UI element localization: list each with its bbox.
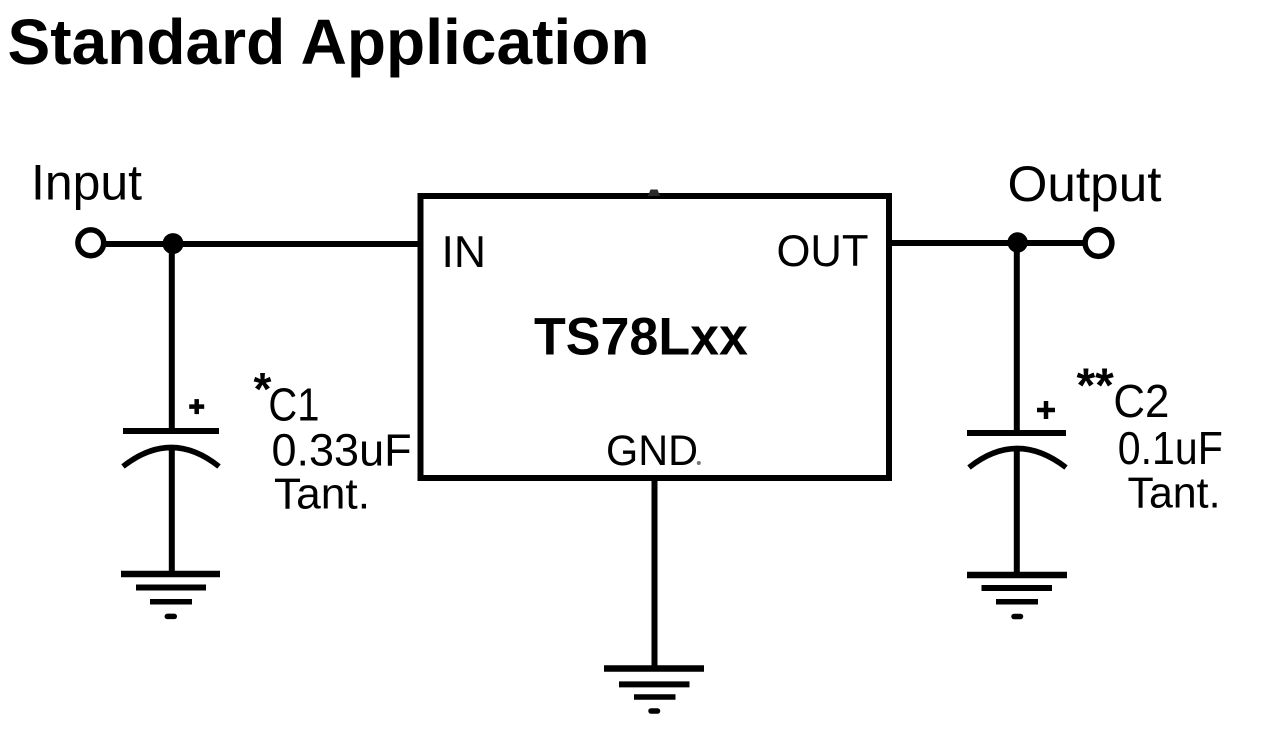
wire OUT pin to output terminal (888, 240, 1086, 246)
wire C1 to ground (169, 447, 175, 577)
node B (output junction) (1007, 232, 1027, 252)
wire node A down to C1 (169, 244, 175, 431)
svg-text:C1: C1 (268, 379, 319, 431)
tick mark on top edge of U1 (648, 190, 660, 197)
ground (input side) (121, 574, 220, 616)
ground (GND pin) (604, 669, 704, 712)
node A (input junction) (163, 233, 184, 254)
svg-text:0.1uF: 0.1uF (1118, 422, 1223, 474)
wire C2 to ground (1014, 449, 1020, 579)
capacitor C2 (967, 401, 1066, 468)
svg-text:Input: Input (31, 155, 142, 211)
svg-text:Tant.: Tant. (1128, 469, 1221, 518)
svg-text:OUT: OUT (777, 227, 869, 276)
svg-text:GND: GND (606, 427, 698, 475)
wire GND pin to ground (652, 478, 658, 672)
input terminal (78, 230, 104, 256)
svg-text:Standard Application: Standard Application (8, 6, 650, 78)
wire node B down to C2 (1014, 243, 1020, 433)
regulator U1 TS78Lxx body (421, 196, 890, 478)
ground (output side) (967, 575, 1067, 617)
output terminal (1085, 230, 1112, 257)
svg-text:0.33uF: 0.33uF (272, 425, 412, 476)
svg-text:Output: Output (1008, 156, 1162, 212)
svg-text:IN: IN (442, 228, 487, 277)
period after GND (697, 461, 701, 465)
svg-text:Tant.: Tant. (274, 470, 370, 519)
svg-text:C2: C2 (1113, 375, 1169, 427)
svg-text:**: ** (1077, 360, 1115, 413)
capacitor C1 (123, 399, 219, 466)
wire input terminal to IN pin (100, 241, 420, 247)
svg-text:TS78Lxx: TS78Lxx (534, 308, 749, 367)
